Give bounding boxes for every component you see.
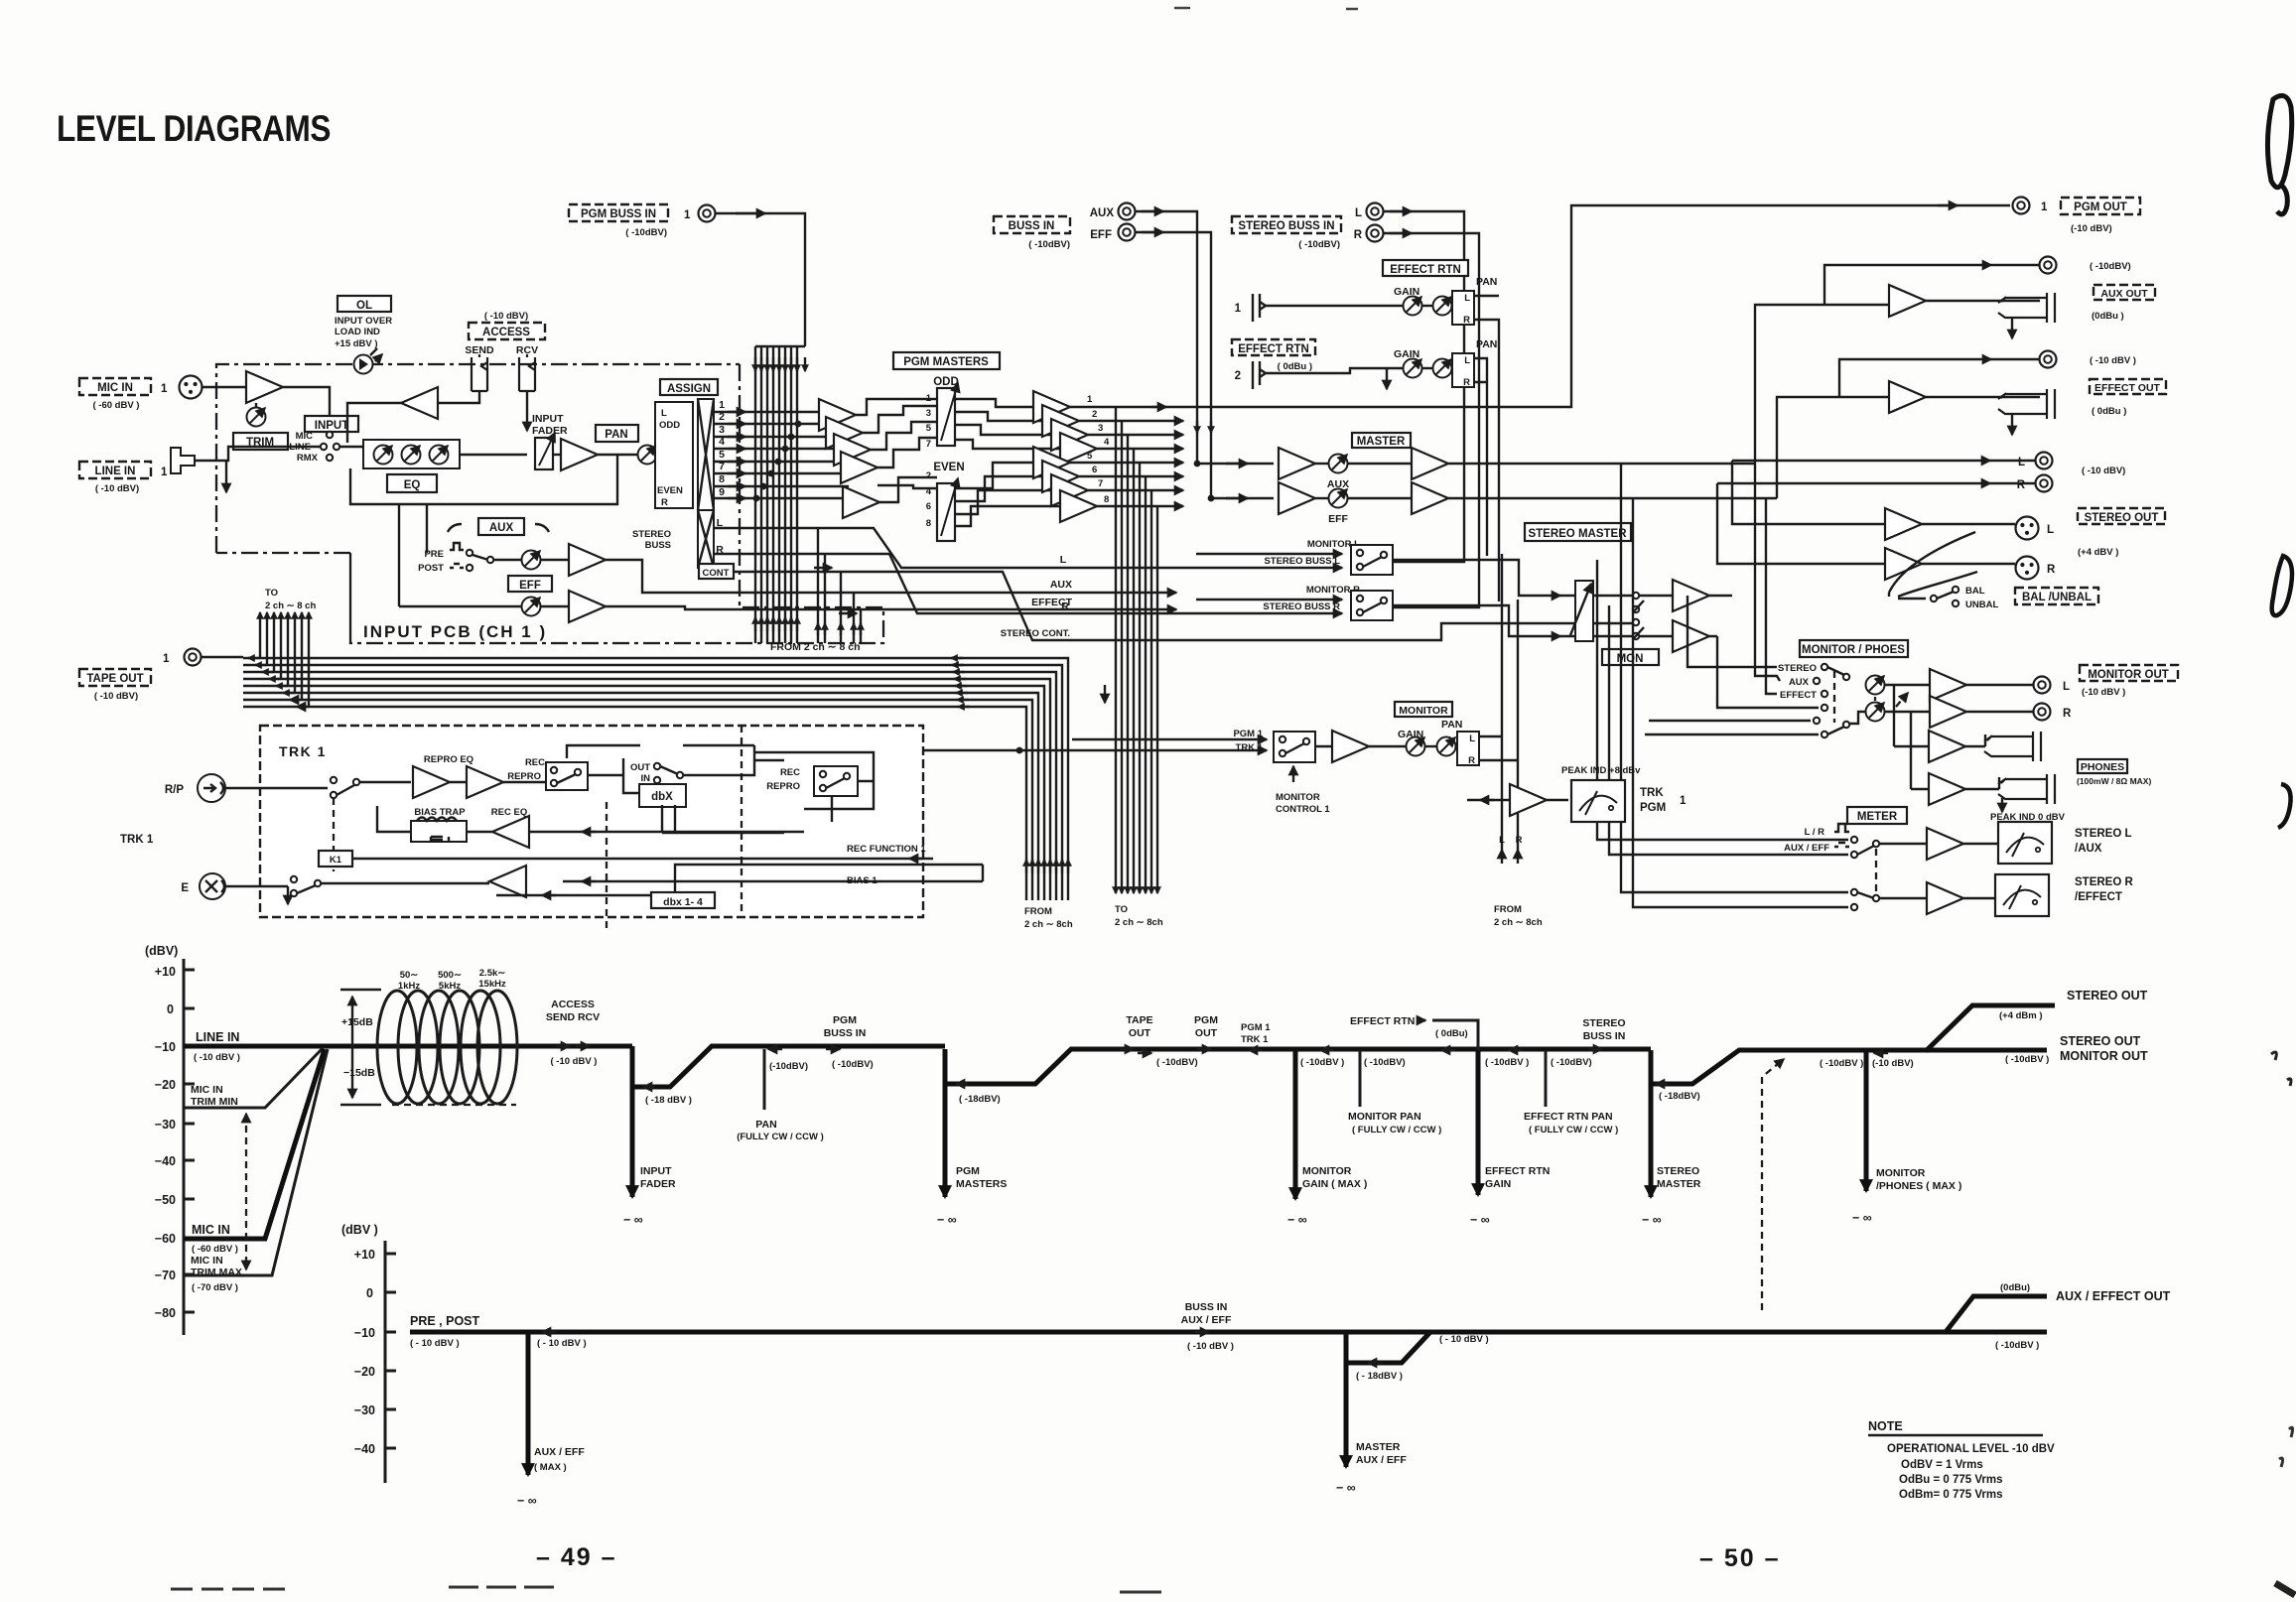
wire tape out jack [202,656,243,658]
svg-text:MIC IN: MIC IN [192,1223,230,1237]
TO 2ch-8ch caption top-left [265,588,316,611]
PGM OUT label box [2013,198,2141,235]
svg-text:−60: −60 [155,1232,176,1246]
svg-text:L: L [2063,681,2070,693]
monitor out R amp [1885,696,1966,728]
monitor out L amp [1885,669,1966,701]
monitor L select switch [1264,539,1393,575]
svg-text:AUX: AUX [1789,677,1810,688]
svg-text:REC FUNCTION 1: REC FUNCTION 1 [847,844,926,855]
R/P head connector [165,774,225,802]
stereo out R amp [1885,548,1922,580]
svg-text:1: 1 [1680,795,1687,807]
svg-text:(+4 dBm ): (+4 dBm ) [1999,1010,2043,1021]
wire amp to pan pot [598,454,638,456]
svg-text:( -10dBV): ( -10dBV) [832,1059,874,1070]
svg-text:MIC IN: MIC IN [191,1084,223,1096]
tape out horizontal line 1 [243,658,1068,900]
from-bundle tap arrows [818,623,861,635]
tape out horizontal line 6 [243,693,1038,900]
buss number labels [716,399,725,556]
bias amp (left pointing) [489,866,526,897]
svg-text:R: R [1463,315,1470,326]
scan ink blob right edge top [2267,95,2291,187]
svg-text:3: 3 [926,408,931,419]
REC/REPRO switch 1 [507,757,588,790]
input fader [535,433,555,469]
svg-text:GAIN: GAIN [1485,1178,1511,1190]
svg-text:REC EQ: REC EQ [491,807,527,818]
svg-text:K1: K1 [330,855,342,866]
scan marks bottom edge [171,1588,290,1591]
branch down arrow [1386,368,1388,389]
stereo master L amp [1673,580,1709,611]
svg-text:1: 1 [163,653,170,665]
wire fader to amp [553,454,561,456]
svg-text:( -10dBV): ( -10dBV) [1551,1057,1592,1068]
aux out amp [1889,285,1926,317]
stereo out R xlr [2016,557,2057,580]
STEREO OUT / MONITOR OUT caption [2060,1034,2148,1063]
ground arrow under line jack [225,461,227,492]
svg-text:INPUT: INPUT [532,413,564,425]
master aux pot [1315,455,1349,491]
aux send amp [569,544,606,576]
input PCB dash-dot boundary [216,364,883,643]
svg-text:+10: +10 [155,965,176,979]
-18dBV step label right of pgm masters [956,1084,1001,1105]
wire stereo buss R down [1351,233,1479,607]
svg-text:L: L [1499,835,1505,846]
EQ section outline wires [350,455,617,606]
svg-text:AUX: AUX [1050,579,1072,591]
-18dBV step right of master [1346,1332,1489,1382]
dashed link to E switch [333,798,335,871]
svg-text:FROM: FROM [1494,904,1522,915]
svg-text:IN: IN [641,773,651,784]
svg-text:STEREO BUSS L: STEREO BUSS L [1264,556,1340,567]
PGM1 TRK1 captions [1233,729,1263,753]
svg-text:PRE , POST: PRE , POST [410,1314,480,1328]
svg-text:( - 10 dBV ): ( - 10 dBV ) [537,1338,587,1349]
svg-text:( - 10 dBV ): ( - 10 dBV ) [1439,1334,1489,1345]
svg-text:1: 1 [2041,201,2048,213]
PGM1 TRK1 small caption [1241,1022,1271,1045]
tape out horizontal line 3 [243,672,1056,900]
buss line 4 [714,448,844,450]
svg-text:REC: REC [780,767,800,778]
MIC IN label box [79,378,168,411]
buss in EFF jack [1090,224,1135,242]
-10dBV labels mid [1820,1053,2049,1069]
svg-text:STEREO L: STEREO L [2075,828,2132,840]
svg-text:+15dB: +15dB [341,1016,373,1028]
svg-text:MIC IN: MIC IN [191,1255,223,1267]
wire stereo buss L down [1351,211,1464,562]
wire PGM buss in down to matrix [716,213,805,346]
svg-text:( -10dBV): ( -10dBV) [625,227,667,238]
INPUT FADER drop [623,1046,676,1227]
wire mic to amp [203,386,246,388]
svg-text:( -10 dBV ): ( -10 dBV ) [194,1052,240,1063]
svg-text:LINE IN: LINE IN [196,1030,239,1044]
pan L/R box 2 [1452,353,1474,388]
MONITOR PAN drop [1320,1050,1441,1135]
wire amp to effect jack [1926,396,2040,398]
buss line 5 [714,461,846,463]
effect rtn gain pot 2 [1404,359,1422,378]
stereo buss in L jack [1355,203,1384,220]
svg-text:OdBV = 1 Vrms: OdBV = 1 Vrms [1901,1459,1983,1471]
svg-text:−20: −20 [354,1365,375,1379]
STEREO BUSS IN point [1582,1017,1625,1049]
svg-text:MONITOR / PHOES: MONITOR / PHOES [1802,644,1905,656]
svg-text:R: R [1463,377,1470,388]
access send jack [472,354,487,391]
svg-text:EFFECT RTN PAN: EFFECT RTN PAN [1524,1111,1613,1123]
TAPE OUT label box [79,653,170,702]
OL label box [335,296,392,349]
MASTER label box [1352,433,1411,448]
svg-text:− ∞: − ∞ [937,1213,957,1227]
svg-text:TRK 1: TRK 1 [1236,742,1264,753]
STEREO BUSS IN label box [1232,216,1341,250]
buss bundle arrows up bottom [755,617,797,631]
svg-text:TAPE OUT: TAPE OUT [86,673,143,685]
svg-text:L: L [2047,524,2054,536]
monitor out R rca [1966,704,2072,721]
PAN label box [596,425,638,442]
svg-text:BAL: BAL [1965,586,1985,597]
scan ink blob right edge lower [2278,784,2291,828]
svg-text:TRIM MIN: TRIM MIN [191,1096,238,1108]
svg-text:( 0dBu): ( 0dBu) [1435,1028,1468,1039]
svg-text:PEAK IND +8 dBv: PEAK IND +8 dBv [1561,765,1641,776]
EQ loops dashed base [392,1104,516,1106]
svg-text:(0dBu ): (0dBu ) [2092,311,2124,322]
buss line 8 [714,497,849,499]
wire pot to aux amp [541,559,569,561]
svg-text:3: 3 [1098,423,1103,434]
svg-text:STEREO: STEREO [1778,663,1817,674]
svg-text:AUX OUT: AUX OUT [2100,288,2148,300]
effect rtn pan pot 1 [1422,297,1452,316]
STEREO R/EFFECT caption [2075,876,2133,903]
tape out horizontal line 7 [243,700,1032,900]
wire EQ to fader [460,454,527,456]
svg-text:6: 6 [926,501,931,512]
phones amp upper [1894,685,1965,762]
svg-text:/AUX: /AUX [2075,843,2102,855]
EQ response loops [377,991,517,1104]
svg-text:L: L [1464,293,1470,304]
eff send pot [399,598,541,616]
svg-text:EVEN: EVEN [657,485,683,496]
ACCESS SEND RCV point [546,999,600,1067]
TRK1 dashed boundary [260,726,923,917]
meter select switch upper [1851,837,1879,858]
svg-text:TRK 1: TRK 1 [120,834,154,846]
svg-text:MASTER: MASTER [1657,1178,1701,1190]
svg-text:ODD: ODD [659,420,680,431]
svg-text:2: 2 [926,470,931,481]
STEREO MASTER label box [1525,523,1631,541]
svg-text:5: 5 [926,423,932,434]
svg-text:INPUT: INPUT [640,1165,672,1177]
INPUT FADER label [532,413,568,437]
buss bundle arrows down [755,357,805,371]
bal/unbal feed curves [1889,532,1977,599]
svg-text:( MAX ): ( MAX ) [534,1462,567,1473]
svg-text:AUX / EFF: AUX / EFF [1181,1314,1232,1326]
svg-text:BAL /UNBAL: BAL /UNBAL [2022,592,2092,603]
wire select common to EQ [340,447,363,449]
svg-text:PGM OUT: PGM OUT [2074,201,2127,213]
wire amp out to MIC contact [283,387,330,430]
pan pot [638,446,657,465]
wire L switch to stereo master [1393,560,1575,596]
AUX/EFF switch caption [1784,843,1849,854]
FROM 2ch-8ch caption [1024,906,1073,930]
wire eff amp to buss [606,606,1176,609]
svg-text:−30: −30 [354,1403,375,1417]
EQ label box [387,474,437,492]
svg-text:INPUT: INPUT [315,420,349,432]
svg-text:BIAS 1: BIAS 1 [847,875,878,886]
trim range dash arrow [245,1114,247,1269]
MONITOR CONTROL caption [1276,766,1330,815]
wire buss in arrows to master [1226,463,1248,465]
wire switch2 wrap [754,752,874,822]
svg-text:R: R [1354,229,1363,241]
MIC IN TRIM MIN trace [184,1047,324,1108]
TO 2ch-8ch vertical bundle [1116,407,1157,893]
wire buss in eff down to master [1136,232,1274,498]
svg-text:UNBAL: UNBAL [1965,600,1998,610]
EFFECT RTN label box bottom [1232,339,1315,372]
svg-text:−40: −40 [354,1442,375,1456]
wire master aux out [1448,463,1755,465]
mon mute switches [1593,593,1673,639]
wire to repro amps [359,781,411,783]
aux send pot [522,551,541,570]
svg-text:( -10dBV ): ( -10dBV ) [1485,1057,1529,1068]
svg-text:EQ: EQ [404,479,421,491]
STEREO L/AUX caption [2075,828,2132,855]
STEREO OUT +4 branch [1926,989,2148,1051]
svg-text:AUX: AUX [489,522,514,534]
svg-text:ACCESS: ACCESS [482,327,530,338]
svg-text:R: R [2063,708,2072,720]
svg-text:EFFECT: EFFECT [1031,597,1072,608]
svg-text:3: 3 [719,424,725,436]
svg-text:( - 18dBV ): ( - 18dBV ) [1356,1371,1403,1382]
EFFECT RTN PAN drop [1509,1050,1618,1135]
svg-text:BUSS IN: BUSS IN [824,1027,867,1039]
svg-text:E: E [181,882,189,894]
svg-text:ASSIGN: ASSIGN [667,383,711,395]
PGM MASTERS drop [937,1049,1007,1227]
tape line mid arrows [951,658,970,707]
buss in AUX jack [1090,203,1136,220]
odd channel numbers [926,393,932,450]
MONITOR/PHOES label box [1800,640,1908,657]
MONITOR OUT label box [2080,665,2178,698]
mic XLR connector J1 [180,376,203,399]
wires into monitor select [1645,464,1819,734]
access rcv jack [519,354,535,391]
wire stereo master outs [1709,596,1732,636]
wire monitor L line [1196,553,1342,555]
wire amps to rec/repro switch [450,781,548,783]
svg-text:OPERATIONAL LEVEL -10 dBV: OPERATIONAL LEVEL -10 dBV [1887,1443,2055,1455]
wire rcv jack down to fader line [526,391,528,431]
svg-text:STEREO: STEREO [632,529,671,540]
svg-text:( -10 dBV ): ( -10 dBV ) [551,1056,598,1067]
svg-text:PAN: PAN [605,429,627,441]
dbx 1-4 label box [651,892,715,908]
svg-text:1: 1 [1235,303,1242,315]
svg-text:( -10dBV): ( -10dBV) [1156,1057,1198,1068]
svg-text:LOAD IND: LOAD IND [335,327,380,337]
svg-text:MONITOR: MONITOR [1276,792,1320,803]
svg-text:FADER: FADER [532,425,568,437]
K1 relay box [319,851,352,867]
svg-text:OdBm= 0 775 Vrms: OdBm= 0 775 Vrms [1899,1489,2003,1501]
svg-text:OdBu = 0 775 Vrms: OdBu = 0 775 Vrms [1899,1474,2003,1486]
svg-text:( FULLY CW / CCW ): ( FULLY CW / CCW ) [1352,1125,1441,1135]
svg-text:STEREO BUSS IN: STEREO BUSS IN [1238,220,1334,232]
input select contacts MIC/LINE/RMX [289,431,339,464]
monitor source select contacts [1778,663,1866,737]
wire out/in to right [683,745,784,775]
PRE POST caption [410,1314,587,1349]
TRK/PGM meter [1571,780,1625,822]
wire L amp to xlr [1732,461,2015,524]
svg-text:8: 8 [719,473,725,485]
svg-text:2 ch ∼ 8ch: 2 ch ∼ 8ch [1024,919,1073,930]
svg-text:−70: −70 [155,1268,176,1282]
svg-text:L: L [1469,734,1475,744]
svg-text:− ∞: − ∞ [1336,1481,1356,1495]
svg-text:− ∞: − ∞ [1852,1211,1872,1225]
svg-text:+15 dBV ): +15 dBV ) [335,338,378,349]
buss line 1 [714,411,822,413]
matrix vertical buss bundle [755,346,805,643]
MONITOR/PHONES drop [1852,1051,1961,1225]
master eff amp in [1279,482,1315,514]
svg-text:STEREO OUT: STEREO OUT [2060,1034,2141,1048]
wire return amp to input select [347,403,401,443]
svg-text:8: 8 [1104,494,1109,505]
master eff amp out [1348,482,1448,514]
svg-text:−20: −20 [155,1078,176,1092]
EQ range bracket [340,990,381,1105]
svg-text:PHONES: PHONES [2081,761,2124,773]
svg-text:PGM: PGM [1640,802,1666,814]
left arrow on trace [542,1331,556,1333]
line input jack [171,448,195,473]
wire stereo line outs [1732,460,2035,462]
junction dots on matrix [753,421,802,502]
svg-text:PGM MASTERS: PGM MASTERS [903,356,989,368]
aux level trace [410,1296,2047,1332]
svg-text:LINE IN: LINE IN [95,466,136,477]
svg-text:OUT: OUT [1195,1027,1218,1039]
master eff pot [1315,489,1348,526]
svg-text:STEREO: STEREO [1657,1165,1699,1177]
svg-text:EFFECT RTN: EFFECT RTN [1238,343,1309,355]
monitor source bus verticals [1597,464,1848,907]
svg-text:5: 5 [1087,451,1093,462]
svg-text:2 ch ∼ 8ch: 2 ch ∼ 8ch [1115,917,1163,928]
svg-text:STEREO OUT: STEREO OUT [2085,512,2159,524]
wire K1 line [352,858,933,860]
AUX/EFFECT OUT captions [1995,1282,2171,1351]
svg-text:dbX: dbX [651,791,673,803]
svg-text:4: 4 [1104,437,1110,448]
LINE IN caption [194,1030,240,1063]
svg-text:STEREO OUT: STEREO OUT [2067,989,2148,1002]
svg-text:L: L [661,408,667,419]
svg-text:( -10dBV): ( -10dBV) [1028,239,1070,250]
svg-text:− ∞: − ∞ [1470,1213,1490,1227]
svg-text:PAN: PAN [755,1119,776,1131]
wire send jack to return amp [438,391,479,403]
svg-text:AUX / EFFECT OUT: AUX / EFFECT OUT [2056,1289,2171,1303]
svg-text:LEVEL DIAGRAMS: LEVEL DIAGRAMS [57,108,331,149]
svg-text:PGM: PGM [1194,1014,1218,1026]
svg-text:EFFECT RTN: EFFECT RTN [1390,264,1461,276]
svg-text:− ∞: − ∞ [1287,1213,1307,1227]
wire monitor R line [1196,599,1342,601]
svg-text:R: R [2047,564,2056,576]
svg-text:AUX: AUX [1090,207,1115,219]
AUX OUT label box [2092,285,2155,322]
svg-text:MONITOR: MONITOR [1302,1165,1352,1177]
svg-text:MONITOR PAN: MONITOR PAN [1348,1111,1421,1123]
from 2ch-8ch monitor bundle [1502,850,1518,864]
svg-text:− ∞: − ∞ [623,1213,643,1227]
svg-text:TO: TO [1115,904,1128,915]
stereo line out R rca [2017,466,2126,492]
wire bias line [321,881,983,883]
svg-text:OUT: OUT [630,762,650,773]
wire R amp to xlr [1717,483,2015,564]
svg-text:−30: −30 [155,1118,176,1132]
svg-text:6: 6 [1092,465,1097,475]
svg-text:( 0dBu ): ( 0dBu ) [2092,406,2126,417]
svg-text:AUX / EFF: AUX / EFF [534,1446,585,1458]
svg-text:2: 2 [1235,370,1241,382]
EQ block with three pots [363,440,460,468]
dbx dashed divider [606,802,608,931]
effect rtn jack 2 [1235,361,1276,389]
PGM buss in RCA jack [699,205,716,222]
svg-text:+10: +10 [354,1248,375,1262]
svg-text:−40: −40 [155,1154,176,1168]
master weave wires [856,399,1060,526]
svg-text:FADER: FADER [640,1178,676,1190]
trim pot VR1 [247,403,266,427]
svg-text:INPUT OVER: INPUT OVER [335,316,392,327]
master aux amp in [1279,448,1315,479]
pgm output number labels [1087,394,1110,505]
svg-text:( -10dBV): ( -10dBV) [2090,261,2131,272]
svg-text:TRK 1: TRK 1 [279,743,327,759]
svg-text:( -18dBV): ( -18dBV) [1659,1091,1700,1102]
TRK PGM caption [1640,787,1687,814]
